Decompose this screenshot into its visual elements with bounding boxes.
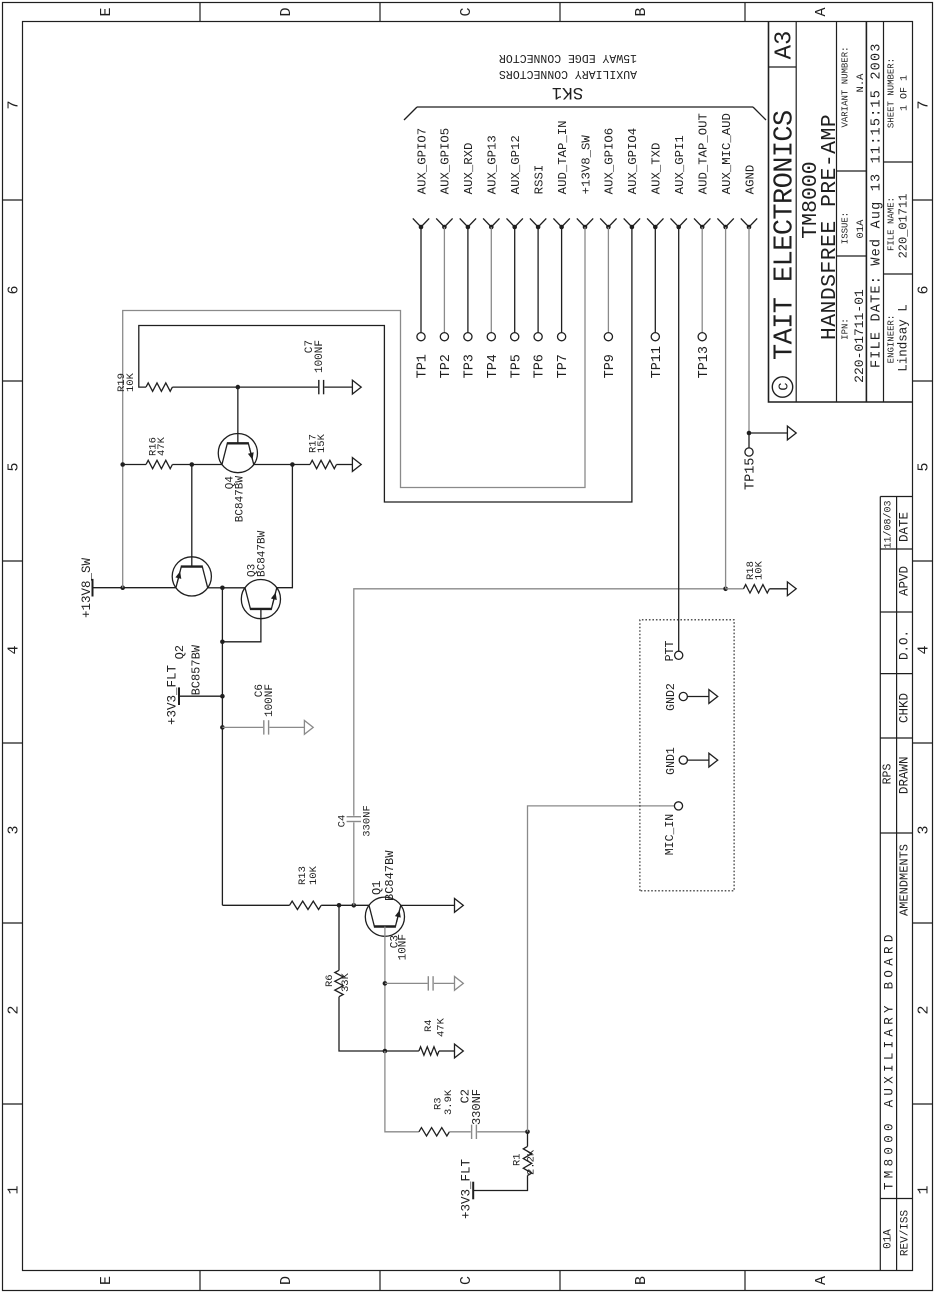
power symbol +3V3_FLT (mic bias) — [472, 1182, 474, 1200]
ground arrow R17 — [352, 458, 361, 472]
amendments table outline — [879, 497, 881, 1271]
svg-text:RPS: RPS — [882, 764, 895, 785]
junction Q4 base / C7 line — [236, 385, 241, 390]
svg-text:330NF: 330NF — [470, 1089, 484, 1125]
svg-text:+13V8_SW: +13V8_SW — [579, 135, 593, 195]
svg-text:15K: 15K — [316, 433, 328, 453]
svg-text:TAIT ELECTRONICS: TAIT ELECTRONICS — [771, 110, 801, 360]
test point TP3 — [464, 333, 472, 341]
svg-text:E: E — [98, 7, 115, 16]
svg-text:TP15: TP15 — [744, 458, 759, 490]
svg-text:7: 7 — [6, 100, 23, 109]
junction Q3 base node — [220, 640, 225, 645]
pad GND1 — [679, 756, 687, 764]
ground arrow R4 — [455, 1044, 464, 1058]
junction Q2 collector node — [220, 586, 225, 591]
svg-text:01A: 01A — [883, 1229, 895, 1249]
port arrow pin 2 — [436, 218, 444, 227]
port arrow pin 6 — [530, 218, 538, 227]
svg-text:TM8000 AUXILIARY BOARD: TM8000 AUXILIARY BOARD — [883, 930, 897, 1190]
svg-text:GND2: GND2 — [665, 683, 678, 711]
svg-text:2: 2 — [916, 1005, 933, 1014]
svg-text:IPN:: IPN: — [841, 318, 851, 340]
wire pin 3 to TP3 — [467, 227, 469, 333]
svg-text:Q2: Q2 — [173, 645, 187, 659]
svg-text:10K: 10K — [308, 865, 320, 885]
svg-text:FILE NAME:: FILE NAME: — [887, 197, 897, 251]
svg-text:AUX_GPIO6: AUX_GPIO6 — [603, 128, 617, 194]
svg-text:10K: 10K — [125, 372, 137, 392]
svg-text:C4: C4 — [337, 815, 349, 828]
svg-text:11/08/03: 11/08/03 — [883, 500, 895, 548]
junction +13V8_SW / routed net — [120, 585, 125, 590]
svg-text:AUD_TAP_OUT: AUD_TAP_OUT — [697, 113, 711, 194]
svg-text:Q1: Q1 — [370, 881, 384, 895]
svg-text:BC847BW: BC847BW — [383, 850, 397, 901]
junction +3V3_FLT / node — [220, 694, 225, 699]
svg-text:R1: R1 — [512, 1153, 524, 1166]
svg-text:SHEET NUMBER:: SHEET NUMBER: — [887, 58, 897, 128]
test point TP5 — [511, 333, 519, 341]
junction C6 / node — [220, 725, 225, 730]
wire node to Q3 collector — [222, 587, 245, 589]
wire Q1 emitter — [401, 904, 455, 906]
svg-text:DATE: DATE — [898, 512, 912, 542]
svg-text:220_01711: 220_01711 — [897, 194, 911, 259]
title block outline — [769, 22, 913, 403]
test point TP15 — [745, 448, 753, 456]
svg-text:AUX_MIC_AUD: AUX_MIC_AUD — [720, 113, 734, 194]
svg-text:ISSUE:: ISSUE: — [841, 212, 851, 244]
svg-text:AUX_GPIO4: AUX_GPIO4 — [626, 128, 640, 194]
svg-text:AGND: AGND — [743, 165, 757, 195]
wire pin 1 to TP1 — [420, 227, 422, 333]
wire Q3 emitter to R17 node — [277, 465, 293, 588]
ground arrow GND2 — [709, 690, 718, 704]
wire pin 4 to TP4 — [490, 227, 492, 333]
test point TP4 — [487, 333, 495, 341]
svg-text:VARIANT NUMBER:: VARIANT NUMBER: — [841, 46, 851, 127]
svg-text:2: 2 — [6, 1005, 23, 1014]
grid row ticks left — [199, 1271, 201, 1291]
resistor R16 — [146, 460, 172, 468]
wire +13V8_SW rail down to Q2 emitter — [93, 587, 176, 589]
svg-text:5: 5 — [6, 462, 23, 471]
port arrow pin 5 — [507, 218, 515, 227]
resistor R17 — [310, 460, 337, 468]
svg-text:Lindsay L: Lindsay L — [897, 304, 911, 372]
resistor R13 — [290, 901, 322, 909]
svg-text:TP11: TP11 — [650, 346, 665, 378]
ground arrow AGND — [787, 426, 796, 440]
port arrow pin 7 — [553, 218, 561, 227]
wire GND1 to ground arrow — [687, 759, 709, 761]
wire pin 7 to TP7 — [561, 227, 563, 333]
port arrow pin 11 — [647, 218, 655, 227]
svg-text:AMENDMENTS: AMENDMENTS — [898, 844, 912, 916]
capacitor C4 — [347, 821, 361, 823]
svg-text:B: B — [633, 7, 650, 16]
resistor R6 — [335, 970, 343, 996]
svg-text:GND1: GND1 — [665, 747, 678, 775]
svg-text:TP9: TP9 — [603, 354, 618, 378]
svg-text:N.A: N.A — [855, 73, 867, 93]
svg-text:B: B — [633, 1276, 650, 1285]
wire R13 to Q1 collector — [321, 904, 369, 906]
svg-text:FILE DATE: Wed Aug 13 11:15:15: FILE DATE: Wed Aug 13 11:15:15 2003 — [870, 42, 885, 368]
svg-text:MIC_IN: MIC_IN — [664, 814, 677, 855]
port arrow pin 1 — [413, 218, 421, 227]
wire Q4 emitter to R17 — [254, 464, 310, 466]
port arrow pin 14 — [717, 218, 725, 227]
wire R17 to ground arrow — [337, 464, 353, 466]
svg-text:7: 7 — [916, 100, 933, 109]
svg-text:PTT: PTT — [664, 641, 677, 662]
junction R6 / collector line — [337, 903, 342, 908]
svg-text:ENGINEER:: ENGINEER: — [887, 315, 897, 364]
wire R3 to C2 — [449, 1131, 470, 1133]
svg-text:10NF: 10NF — [398, 934, 410, 960]
svg-text:E: E — [98, 1276, 115, 1285]
svg-text:A3: A3 — [772, 31, 799, 60]
svg-text:4: 4 — [6, 645, 23, 654]
wire Q4 base — [237, 387, 239, 443]
svg-text:AUX_RXD: AUX_RXD — [462, 143, 476, 195]
test point TP2 — [440, 333, 448, 341]
amendments table dividers — [880, 1198, 912, 1200]
svg-text:+3V3_FLT: +3V3_FLT — [460, 1158, 474, 1219]
copyright symbol — [772, 377, 792, 397]
connector SK1 bracket — [417, 106, 753, 108]
wire AGND to ground arrow — [749, 432, 787, 434]
wire pin 2 to TP2 — [443, 227, 445, 333]
grid column ticks top — [3, 1103, 23, 1105]
svg-text:A: A — [813, 1276, 830, 1285]
transistor Q4 BC847BW — [218, 433, 257, 472]
port arrow pin 12 — [671, 218, 679, 227]
wire R1 to +3V3_FLT — [473, 1176, 527, 1191]
ground arrow C3 — [455, 977, 464, 991]
wire MIC_IN — [528, 806, 675, 1132]
svg-text:AUX_GPIO5: AUX_GPIO5 — [439, 128, 453, 194]
wire to R18 — [726, 588, 744, 590]
junction C2 / R1 / MIC_IN — [525, 1130, 530, 1135]
wire Q2 base to R16 line — [191, 465, 193, 567]
svg-text:TP1: TP1 — [416, 354, 431, 378]
svg-text:D: D — [278, 7, 295, 16]
wire AGND to connector pin 15 — [748, 227, 750, 433]
title block engineer row dividers — [884, 273, 913, 275]
junction C4 / collector line — [352, 903, 357, 908]
svg-text:TP13: TP13 — [697, 346, 712, 378]
svg-text:TP4: TP4 — [486, 354, 501, 378]
svg-text:330NF: 330NF — [362, 805, 374, 837]
svg-text:RSSI: RSSI — [532, 165, 546, 195]
resistor R18 — [744, 585, 770, 593]
svg-text:CHKD: CHKD — [898, 693, 912, 723]
svg-text:6: 6 — [916, 285, 933, 294]
junction AUX_MIC_AUD / R18 — [723, 587, 728, 592]
svg-text:AUD_TAP_IN: AUD_TAP_IN — [556, 121, 570, 195]
svg-text:01A: 01A — [855, 219, 867, 239]
svg-text:4: 4 — [916, 645, 933, 654]
grid row ticks right — [199, 3, 201, 22]
svg-text:1: 1 — [916, 1185, 933, 1194]
ground arrow GND1 — [709, 753, 718, 767]
pad MIC_IN — [674, 802, 682, 810]
svg-text:+13V8_SW: +13V8_SW — [80, 557, 94, 618]
svg-text:SK1: SK1 — [552, 82, 584, 102]
svg-text:C: C — [458, 7, 475, 16]
svg-text:TP2: TP2 — [439, 354, 454, 378]
svg-text:1 OF 1: 1 OF 1 — [900, 75, 911, 111]
svg-text:1: 1 — [6, 1185, 23, 1194]
test point TP7 — [558, 333, 566, 341]
svg-text:AUX_GPIO7: AUX_GPIO7 — [415, 128, 429, 194]
junction Q4 emitter / Q3 emitter / R17 — [290, 462, 295, 467]
svg-text:R6: R6 — [324, 974, 336, 987]
port arrow pin 15 — [741, 218, 749, 227]
wire PTT to connector pin 12 — [678, 227, 680, 651]
test point TP1 — [417, 333, 425, 341]
svg-text:A: A — [813, 7, 830, 16]
svg-text:3.9K: 3.9K — [443, 1089, 455, 1115]
test point TP6 — [534, 333, 542, 341]
svg-text:AUX_GP13: AUX_GP13 — [486, 135, 500, 194]
svg-text:AUX_GPI1: AUX_GPI1 — [673, 135, 687, 194]
svg-text:DRAWN: DRAWN — [898, 757, 912, 795]
wire C6 to ground arrow — [269, 726, 304, 728]
wire R16 top to +13V8_SW — [123, 464, 146, 466]
svg-text:3: 3 — [6, 825, 23, 834]
power symbol +3V3_FLT (node) — [178, 687, 180, 705]
wire AUX_MIC_AUD to connector pin 14 — [725, 227, 727, 589]
microphone connector dotted box — [640, 620, 734, 891]
svg-text:220-01711-01: 220-01711-01 — [852, 289, 867, 383]
svg-text:AUXILIARY CONNECTORS: AUXILIARY CONNECTORS — [499, 67, 637, 80]
grid column ticks bottom — [913, 1103, 933, 1105]
transistor Q1 BC847BW — [365, 897, 404, 936]
svg-text:3: 3 — [916, 825, 933, 834]
resistor R19 — [146, 383, 172, 391]
transistor Q3 BC847BW — [241, 579, 280, 618]
svg-text:47K: 47K — [436, 1017, 448, 1037]
svg-text:REV/ISS: REV/ISS — [900, 1210, 912, 1257]
wire R16 to Q4 collector — [172, 464, 222, 466]
wire R19 to C7 — [172, 386, 318, 388]
junction R4 / base line — [383, 1049, 388, 1054]
wire C6 branch — [222, 726, 263, 728]
pad PTT — [675, 651, 683, 659]
wire GND2 to ground arrow — [687, 696, 709, 698]
capacitor C3 — [427, 976, 429, 990]
wire C7 to ground arrow — [324, 386, 352, 388]
wire Q3 base — [222, 609, 261, 642]
svg-text:BC847BW: BC847BW — [235, 476, 247, 523]
title block A3 cell — [769, 66, 797, 68]
svg-text:2.2K: 2.2K — [526, 1149, 538, 1175]
power symbol +13V8_SW — [92, 579, 94, 597]
svg-text:47K: 47K — [156, 436, 168, 456]
capacitor C7 — [318, 380, 320, 394]
wire node down to R13 — [222, 904, 289, 906]
wire R6 branch — [338, 905, 340, 970]
wire C3 branch — [385, 982, 428, 984]
port arrow pin 9 — [600, 218, 608, 227]
wire +3V3_FLT node horizontal — [221, 588, 223, 906]
wire C2 to junction — [477, 1131, 527, 1133]
svg-text:AUX_TXD: AUX_TXD — [650, 143, 664, 195]
svg-text:AUX_GP12: AUX_GP12 — [509, 135, 523, 194]
wire base line to R3 — [385, 1051, 419, 1132]
resistor R3 — [419, 1128, 450, 1136]
wire Q2 collector to node +3V3_FLT — [208, 587, 223, 589]
junction C3 / base line — [383, 981, 388, 986]
svg-text:TP7: TP7 — [556, 354, 571, 378]
wire R19 to connector pin 10 (AUX_GPIO4) — [139, 227, 632, 502]
wire C3 to ground arrow — [434, 982, 455, 984]
ground arrow Q1 emitter — [455, 899, 464, 913]
svg-text:100NF: 100NF — [264, 684, 276, 717]
transistor Q2 BC857BW — [172, 557, 211, 596]
ground arrow R18 — [787, 582, 796, 596]
svg-text:10K: 10K — [754, 560, 766, 580]
resistor R1 — [523, 1146, 531, 1175]
port arrow pin 8 — [577, 218, 585, 227]
resistor R4 — [419, 1047, 439, 1055]
wire +3V3_FLT stem — [179, 695, 222, 697]
wire C4 to AUX_MIC_AUD — [354, 589, 726, 816]
capacitor C6 — [263, 720, 265, 734]
wire R4 to ground arrow — [439, 1050, 455, 1052]
svg-text:BC847BW: BC847BW — [257, 530, 269, 577]
test point TP9 — [604, 333, 612, 341]
svg-text:TP3: TP3 — [463, 354, 478, 378]
wire R18 to ground arrow — [769, 588, 787, 590]
wire AGND to TP15 — [748, 433, 750, 448]
svg-text:C: C — [777, 382, 792, 390]
wire C4 coupling — [353, 822, 355, 905]
junction Q2 base / R16 — [190, 462, 195, 467]
svg-text:D.O.: D.O. — [898, 630, 912, 660]
svg-text:15WAY EDGE CONNECTOR: 15WAY EDGE CONNECTOR — [499, 51, 637, 64]
wire pin 13 to TP13 — [701, 227, 703, 333]
svg-text:C: C — [458, 1276, 475, 1285]
test point TP11 — [651, 333, 659, 341]
capacitor C2 — [471, 1125, 473, 1139]
test point TP13 — [698, 333, 706, 341]
svg-text:100NF: 100NF — [314, 340, 326, 373]
pad GND2 — [679, 692, 687, 700]
wire pin 11 to TP11 — [654, 227, 656, 333]
wire pin 5 to TP5 — [514, 227, 516, 333]
ground arrow C6 — [304, 721, 313, 735]
wire +13V8_SW routed to connector pin 8 — [123, 227, 585, 588]
title block IPN row dividers — [837, 255, 867, 257]
svg-text:BC857BW: BC857BW — [190, 644, 204, 695]
port arrow pin 3 — [460, 218, 468, 227]
svg-text:+3V3_FLT: +3V3_FLT — [166, 664, 180, 725]
wire Q1 base line — [384, 927, 386, 1052]
svg-text:33K: 33K — [340, 972, 352, 992]
junction AGND / TP15 — [747, 431, 752, 436]
junction R16 / +13V8_SW — [120, 462, 125, 467]
svg-text:R4: R4 — [423, 1019, 435, 1032]
svg-text:TP6: TP6 — [533, 354, 548, 378]
wire R6 to base node — [339, 997, 385, 1051]
svg-text:5: 5 — [916, 462, 933, 471]
wire pin 9 to TP9 — [607, 227, 609, 333]
svg-text:APVD: APVD — [898, 566, 912, 596]
svg-text:TP5: TP5 — [509, 354, 524, 378]
wire pin 6 to TP6 — [537, 227, 539, 333]
svg-text:HANDSFREE PRE-AMP: HANDSFREE PRE-AMP — [818, 114, 842, 340]
svg-text:D: D — [278, 1276, 295, 1285]
title block row dividers — [795, 22, 797, 403]
port arrow pin 13 — [694, 218, 702, 227]
port arrow pin 4 — [483, 218, 491, 227]
svg-text:6: 6 — [6, 285, 23, 294]
wire junction to R1 — [527, 1132, 529, 1147]
port arrow pin 10 — [624, 218, 632, 227]
ground arrow C7 — [352, 380, 361, 394]
wire R4 branch — [385, 1050, 419, 1052]
